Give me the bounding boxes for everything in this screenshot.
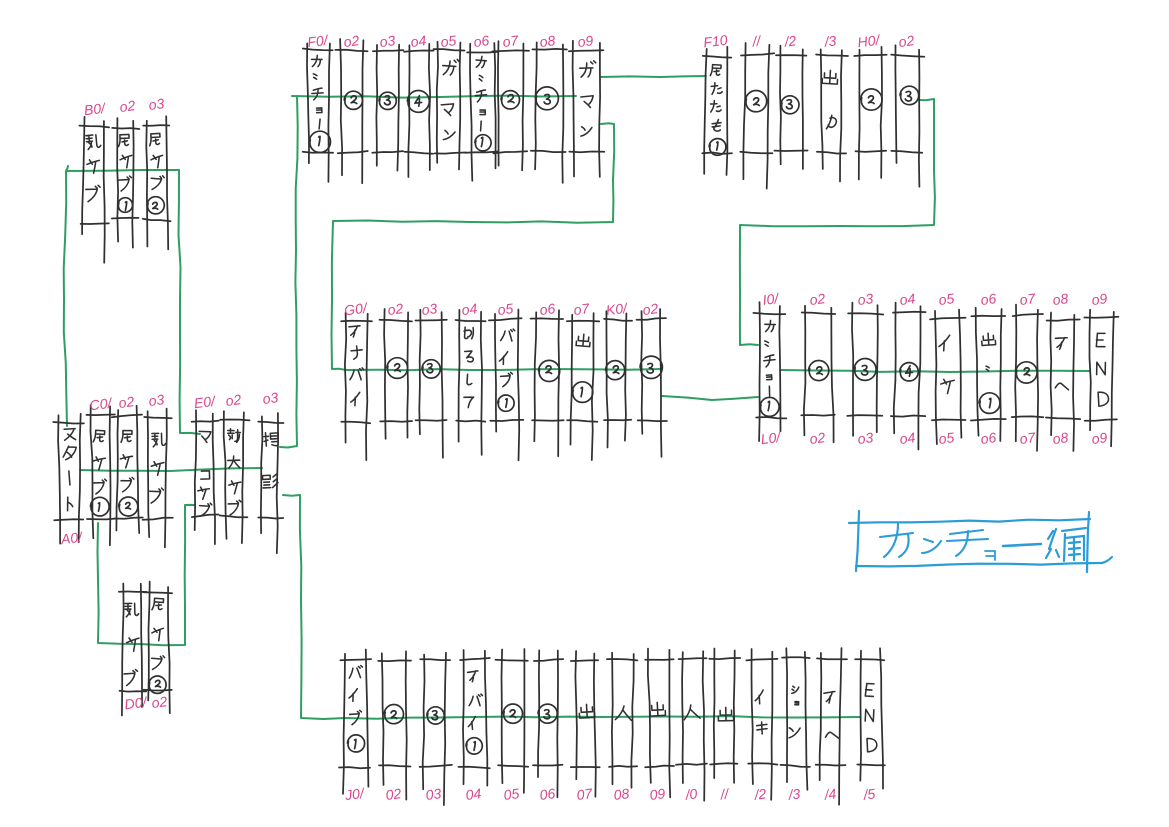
- strip G04: [456, 310, 486, 455]
- svg-text:o5: o5: [440, 32, 458, 50]
- svg-text:o5: o5: [938, 290, 956, 308]
- strip D01: [119, 584, 147, 716]
- strip G01: [341, 313, 372, 460]
- strip K02: [637, 309, 668, 457]
- svg-text:o6: o6: [980, 429, 998, 447]
- wire E01 bottom to D-group: [98, 505, 196, 645]
- strip J05: [496, 649, 529, 793]
- svg-text:o3: o3: [379, 32, 397, 50]
- strip J04: [459, 650, 490, 786]
- strip F05: [434, 42, 466, 170]
- strip I05: [930, 310, 966, 445]
- svg-text:o2: o2: [809, 290, 827, 308]
- strip A01: [53, 414, 84, 544]
- strip E02: [220, 411, 250, 543]
- svg-text:o6: o6: [473, 32, 491, 50]
- strip G06: [531, 310, 564, 456]
- svg-text:o3: o3: [262, 389, 280, 407]
- wire I-row horizontal: [781, 370, 1090, 372]
- svg-text:/0: /0: [684, 785, 699, 802]
- strip J09: [645, 649, 674, 798]
- strip F08: [531, 42, 567, 183]
- strip H01: [854, 47, 887, 180]
- strip J02: [378, 651, 411, 799]
- strip E03: [258, 413, 283, 553]
- strip F09: [569, 41, 604, 177]
- svg-text:A0/: A0/: [59, 529, 85, 548]
- svg-text:D0/: D0/: [124, 694, 150, 713]
- svg-text:/2: /2: [783, 32, 798, 49]
- svg-text:o3: o3: [857, 290, 875, 308]
- svg-text:o2: o2: [343, 32, 361, 50]
- svg-text:o6: o6: [539, 300, 557, 318]
- svg-text:/4: /4: [823, 785, 838, 802]
- strip G05: [489, 310, 524, 461]
- strip F10: [702, 47, 732, 175]
- strip B03: [143, 116, 171, 249]
- svg-text:02: 02: [385, 785, 403, 803]
- wire E03 right down to J-row: [283, 495, 345, 719]
- strip F01: [303, 43, 334, 182]
- strip F02: [335, 39, 368, 183]
- svg-text:o9: o9: [1091, 290, 1109, 308]
- wire G-row horizontal: [346, 369, 661, 370]
- svg-text:o3: o3: [857, 429, 875, 447]
- strip B01: [79, 117, 109, 263]
- wire J-row horizontal: [345, 716, 860, 719]
- strip J07: [571, 651, 600, 797]
- title box kanchou-hen: [849, 511, 1112, 572]
- strip I04: [891, 303, 926, 450]
- svg-text:o4: o4: [899, 290, 917, 308]
- svg-text:o5: o5: [938, 429, 956, 447]
- svg-text:o2: o2: [642, 300, 660, 318]
- wire F-row horizontal: [292, 96, 576, 98]
- svg-text:H0/: H0/: [857, 32, 883, 51]
- svg-text:o9: o9: [577, 32, 595, 50]
- strip J06: [533, 650, 563, 797]
- strip I01: [753, 302, 786, 441]
- strip G02: [380, 309, 413, 439]
- svg-text:B0/: B0/: [83, 100, 108, 119]
- svg-text:o2: o2: [898, 32, 916, 50]
- strip J03: [420, 653, 452, 805]
- svg-text:/3: /3: [823, 32, 838, 49]
- svg-text:o9: o9: [1091, 429, 1109, 447]
- strip F12: [774, 46, 807, 169]
- strip I02: [801, 306, 835, 442]
- strip J10: [676, 651, 707, 801]
- wire A/C/E row horizontal: [80, 468, 262, 471]
- strip C01: [86, 405, 115, 545]
- wire K02 to I01: [662, 396, 758, 400]
- svg-text:o3: o3: [148, 95, 166, 113]
- wire B-left down to A01: [64, 171, 67, 426]
- svg-text:o4: o4: [410, 32, 428, 50]
- svg-text:o6: o6: [980, 290, 998, 308]
- strip J11: [709, 649, 740, 783]
- svg-text:o2: o2: [119, 97, 137, 115]
- strip I08: [1046, 313, 1080, 452]
- svg-text:o3: o3: [148, 391, 166, 409]
- strip J01: [339, 650, 371, 794]
- svg-text:04: 04: [465, 785, 483, 803]
- strip J14: [816, 648, 847, 805]
- svg-text:o4: o4: [461, 300, 479, 318]
- svg-text:o4: o4: [899, 429, 917, 447]
- svg-text:C0/: C0/: [89, 395, 115, 414]
- strip F11: [740, 43, 774, 189]
- svg-text:o8: o8: [1052, 429, 1070, 447]
- strip J13: [781, 648, 810, 790]
- strip F03: [372, 45, 403, 171]
- svg-text:/2: /2: [753, 785, 768, 802]
- wire B-right down to E01 top: [179, 170, 201, 434]
- strip H02: [891, 45, 924, 186]
- strip F07: [492, 41, 529, 170]
- svg-text:o2: o2: [809, 429, 827, 447]
- strip J15: [855, 648, 885, 788]
- svg-text:03: 03: [425, 785, 443, 803]
- wire B-row horizontal with left/right drops: [66, 166, 179, 171]
- svg-text:/3: /3: [787, 785, 802, 802]
- strip G03: [416, 310, 447, 458]
- svg-text:o2: o2: [387, 300, 405, 318]
- svg-text:K0/: K0/: [605, 300, 630, 319]
- strip I03: [847, 303, 883, 436]
- strip G07: [567, 313, 599, 460]
- svg-text:05: 05: [503, 785, 521, 803]
- strip F13: [816, 49, 848, 181]
- svg-text:08: 08: [613, 785, 631, 803]
- strip I06: [971, 308, 1006, 441]
- svg-text:G0/: G0/: [343, 299, 369, 318]
- strip J08: [607, 653, 637, 788]
- strip C02: [112, 406, 143, 533]
- strip I09: [1084, 310, 1118, 447]
- svg-text:o2: o2: [118, 393, 136, 411]
- wire H02 down-around to I01: [740, 99, 935, 345]
- svg-text:o2: o2: [151, 693, 169, 711]
- strip C03: [143, 409, 173, 548]
- wire E03 right up to F-row: [280, 96, 298, 448]
- wire F09 to F10: [601, 76, 706, 77]
- strip F04: [404, 44, 434, 177]
- svg-text:/5: /5: [862, 785, 877, 802]
- strip F06: [465, 43, 499, 181]
- strip D02: [143, 582, 172, 714]
- wire F09 down-around to G01: [332, 123, 615, 370]
- svg-text:o2: o2: [225, 391, 243, 409]
- svg-text:o5: o5: [497, 300, 515, 318]
- svg-text:o8: o8: [539, 32, 557, 50]
- svg-text:E0/: E0/: [193, 393, 218, 412]
- svg-text:o8: o8: [1052, 290, 1070, 308]
- strip B02: [112, 118, 140, 248]
- strip I07: [1012, 305, 1044, 451]
- strip J12: [746, 649, 777, 800]
- svg-text:F10: F10: [702, 32, 728, 51]
- svg-text:09: 09: [649, 785, 667, 803]
- strip E01: [192, 410, 219, 544]
- svg-text:o3: o3: [421, 300, 439, 318]
- strip K01: [604, 311, 632, 447]
- svg-text:06: 06: [539, 785, 557, 803]
